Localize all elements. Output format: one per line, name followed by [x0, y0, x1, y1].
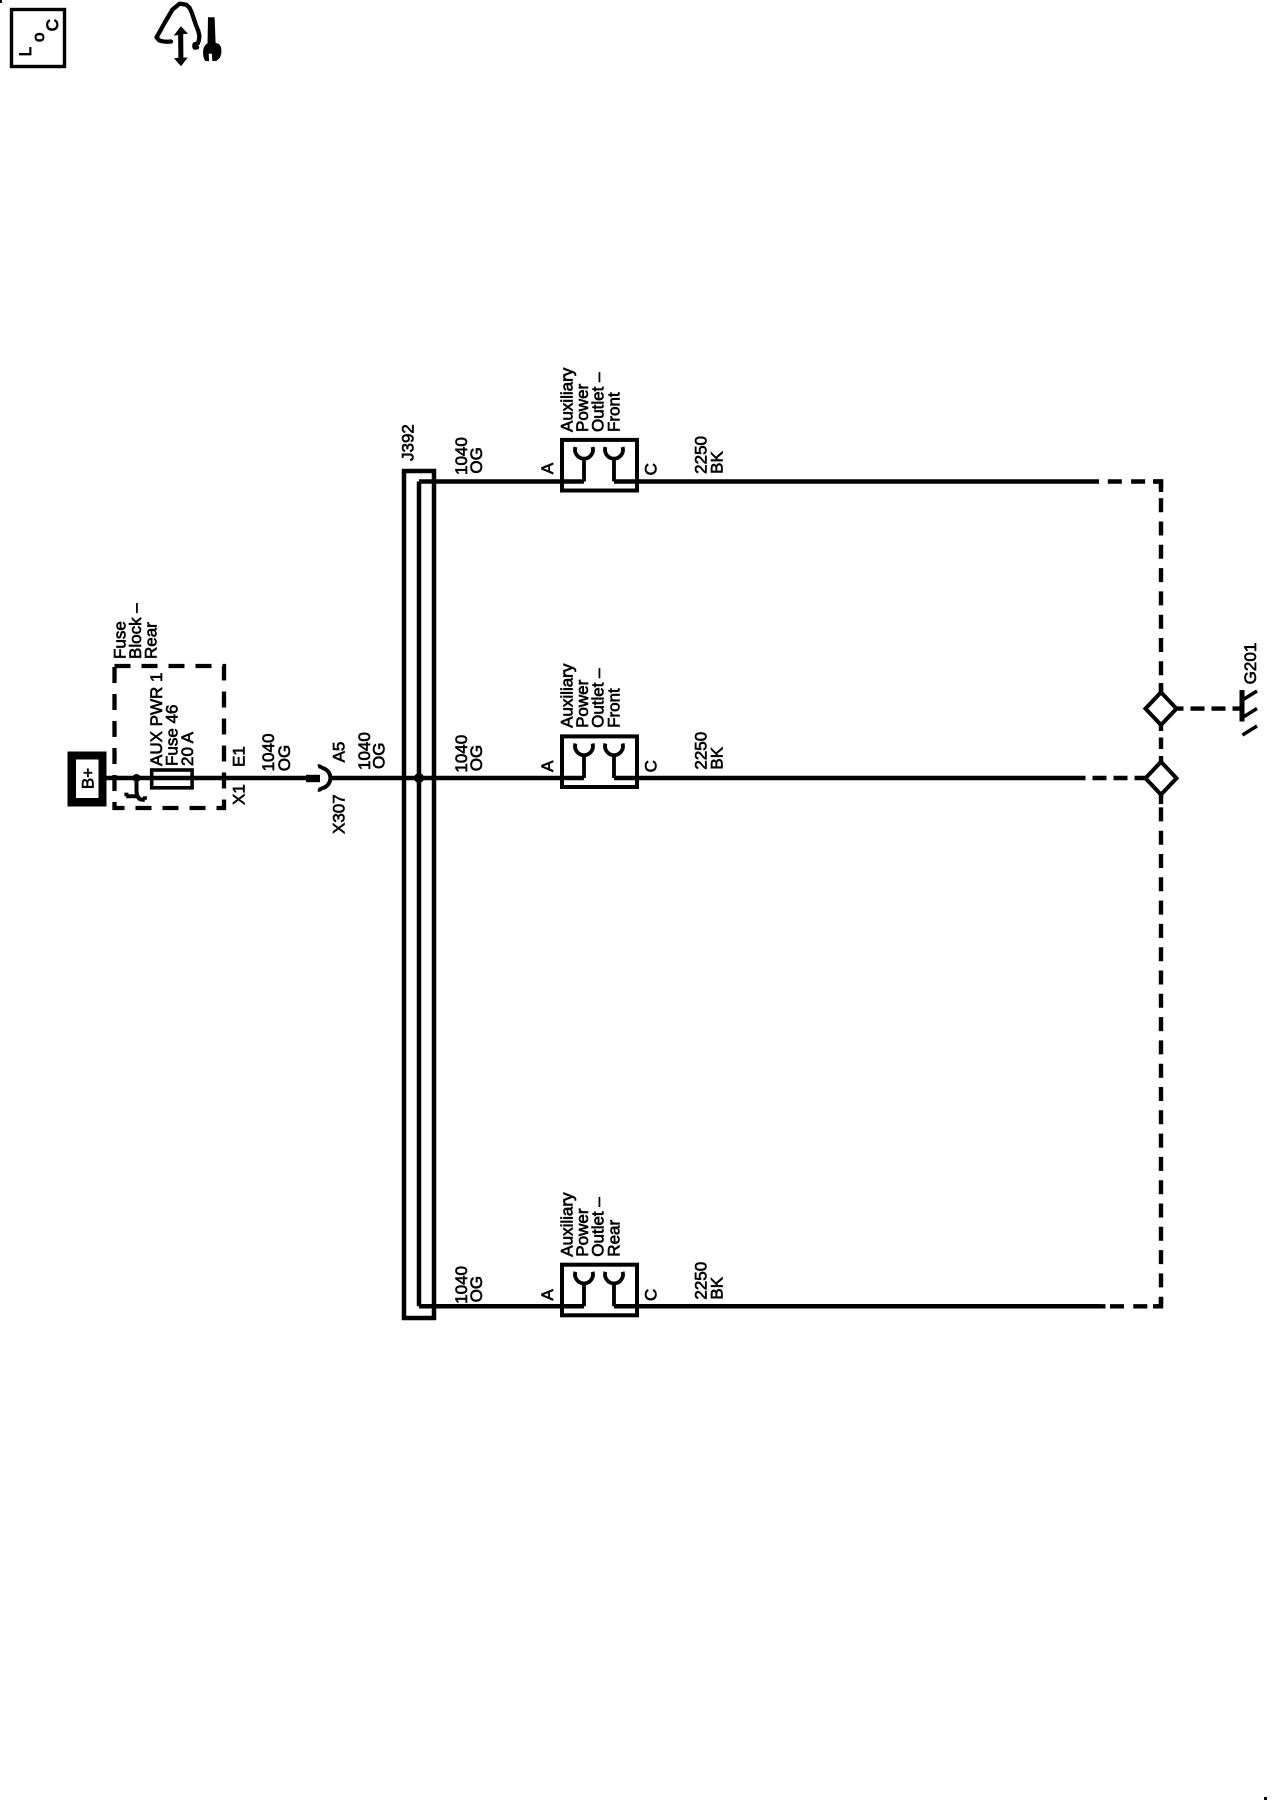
svg-text:OG: OG — [467, 745, 486, 771]
page corner mark top-left — [0, 0, 2, 3]
wire label 1040 OG (1) — [259, 734, 294, 772]
wire: bus to front outlet 1 pin A — [419, 479, 584, 484]
svg-text:20 A: 20 A — [178, 731, 197, 766]
wire label 2250 BK (outlet 1) — [691, 436, 726, 474]
label: AUX PWR 1 Fuse 46 20 A — [147, 672, 197, 766]
wire label 1040 OG (rear outlet) — [452, 1266, 486, 1304]
wire label 1040 OG (2) — [355, 732, 389, 770]
svg-text:E1: E1 — [229, 746, 248, 767]
fuse block rear dashed outline — [115, 666, 225, 808]
wire: rear outlet pin C to dashed — [614, 1304, 1098, 1309]
svg-text:Front: Front — [604, 688, 623, 728]
svg-text:C: C — [642, 1289, 661, 1301]
svg-text:C: C — [642, 463, 661, 475]
junction dot: feed to bus bar — [414, 773, 424, 783]
svg-text:X307: X307 — [330, 794, 349, 834]
splice pack J392 bus bar — [417, 482, 422, 1307]
wire label 2250 BK (rear outlet) — [691, 1262, 726, 1300]
LOC reference box — [12, 10, 65, 67]
label: Auxiliary Power Outlet - Front (1) — [558, 367, 624, 432]
page corner mark bottom-right — [1264, 1797, 1267, 1800]
svg-text:G201: G201 — [1241, 643, 1260, 685]
dashed wire between splice diamonds — [1159, 725, 1163, 762]
wire label 1040 OG (outlet 2) — [452, 735, 486, 773]
label: Fuse Block - Rear — [111, 603, 161, 659]
connector X307 male terminal — [306, 775, 320, 782]
svg-text:Rear: Rear — [604, 1220, 623, 1257]
svg-text:BK: BK — [708, 746, 727, 769]
label: Auxiliary Power Outlet - Front (2) — [558, 663, 624, 728]
dashed wire: outlet 2 to splice diamond — [1093, 776, 1146, 780]
svg-text:A: A — [538, 1289, 557, 1301]
connector: auxiliary power outlet front 2 — [562, 736, 637, 787]
junction dot at fusible hook — [133, 774, 141, 782]
splice diamond lower — [1146, 762, 1177, 795]
svg-text:C: C — [43, 19, 62, 31]
svg-text:OG: OG — [467, 447, 486, 473]
svg-text:A: A — [538, 462, 557, 474]
svg-text:B+: B+ — [78, 768, 97, 789]
navigation icon: arrow outline — [157, 4, 200, 48]
wire: front outlet 1 pin C to dashed — [614, 479, 1099, 484]
wire: B+ to X307 — [106, 776, 306, 781]
fusible element hook — [126, 778, 145, 800]
wire label 2250 BK (outlet 2) — [691, 732, 726, 770]
svg-text:X1: X1 — [230, 784, 249, 805]
battery feed B+ box — [68, 752, 106, 806]
connector: auxiliary power outlet rear — [562, 1265, 637, 1316]
svg-text:A5: A5 — [330, 742, 349, 763]
svg-text:OG: OG — [275, 745, 294, 771]
fuse AUX PWR 1 / Fuse 46 / 20 A — [152, 770, 192, 788]
svg-text:OG: OG — [467, 1276, 486, 1302]
svg-text:OG: OG — [370, 743, 389, 769]
svg-text:o: o — [29, 33, 48, 42]
svg-text:L: L — [16, 47, 35, 56]
svg-text:C: C — [642, 760, 661, 772]
splice diamond upper — [1146, 692, 1177, 725]
svg-text:BK: BK — [708, 1276, 727, 1299]
navigation icon: wrench — [203, 17, 221, 61]
wire: bus to rear outlet pin A — [419, 1304, 584, 1309]
connector: auxiliary power outlet front 1 — [562, 440, 637, 491]
wire: front outlet 2 pin C to dashed — [614, 776, 1086, 781]
navigation icon: double-headed arrow — [174, 26, 188, 66]
connector X307 female socket — [318, 766, 330, 789]
wire: X307 through splice pack to front outlet 2 pin A — [332, 776, 584, 781]
splice pack J392 housing — [404, 471, 434, 1318]
svg-text:J392: J392 — [399, 424, 418, 461]
LOC letters — [16, 19, 62, 56]
svg-text:BK: BK — [708, 450, 727, 473]
dashed wire: splice diamond down to rear outlet — [1098, 795, 1161, 1307]
svg-text:Front: Front — [604, 392, 623, 432]
label: Auxiliary Power Outlet - Rear — [558, 1192, 624, 1257]
dashed wire: splice to ground — [1177, 706, 1240, 710]
svg-text:A: A — [538, 760, 557, 772]
wire label 1040 OG (outlet 1) — [452, 437, 486, 475]
svg-text:Rear: Rear — [142, 622, 161, 659]
dashed wire: outlet 1 to splice diamond — [1099, 482, 1161, 693]
ground G201 symbol — [1240, 690, 1258, 735]
